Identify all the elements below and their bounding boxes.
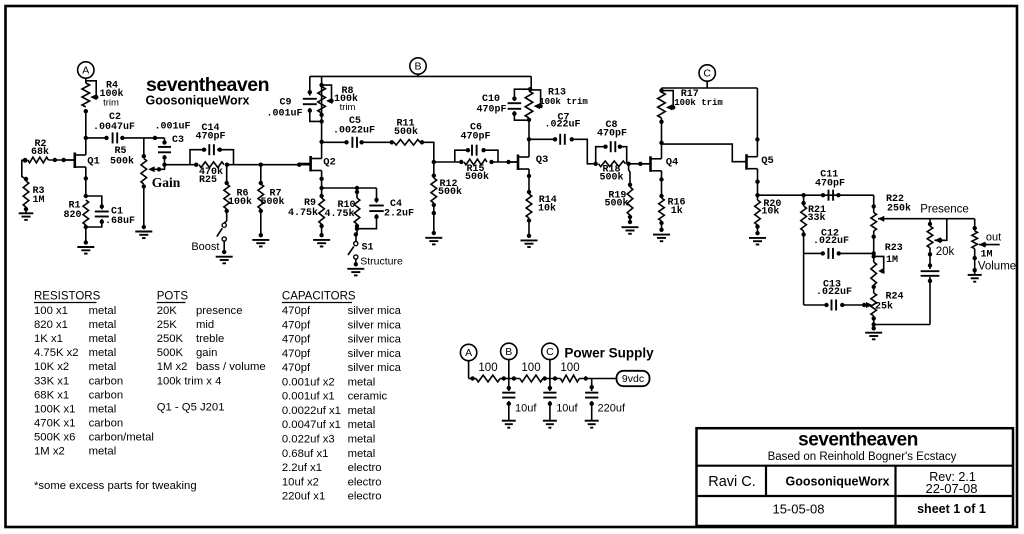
- ground R20: [749, 238, 766, 245]
- svg-text:.68uF: .68uF: [105, 216, 135, 227]
- node C rail: [662, 65, 758, 157]
- svg-text:10uf x2: 10uf x2: [282, 476, 319, 488]
- label C12: [813, 229, 849, 248]
- svg-text:RESISTORS: RESISTORS: [34, 291, 101, 303]
- transistor Q1: [64, 153, 86, 169]
- svg-text:metal: metal: [89, 403, 117, 415]
- svg-text:220uf: 220uf: [598, 403, 626, 415]
- title subtitle: [768, 451, 957, 463]
- ground R3: [19, 209, 34, 220]
- svg-text:C: C: [703, 68, 711, 80]
- label R2: [31, 139, 49, 158]
- capacitor parts list: [282, 305, 402, 503]
- svg-text:gain: gain: [196, 347, 217, 359]
- title date: [772, 502, 824, 517]
- svg-text:9vdc: 9vdc: [622, 373, 644, 385]
- wire Q4 drain: [659, 118, 663, 159]
- svg-text:.001uF: .001uF: [266, 109, 302, 120]
- svg-text:500k: 500k: [260, 196, 284, 208]
- label C5: [333, 116, 375, 137]
- svg-text:0.0047uf x1: 0.0047uf x1: [282, 419, 341, 431]
- label C14: [195, 123, 225, 143]
- label R20: [761, 199, 781, 218]
- logo seventheaven: [146, 74, 269, 96]
- resistor R25: [194, 162, 229, 168]
- svg-text:470pf: 470pf: [282, 319, 311, 331]
- wire tone stack ground: [872, 282, 931, 327]
- svg-text:15-05-08: 15-05-08: [772, 502, 824, 517]
- svg-text:500k: 500k: [394, 126, 418, 138]
- svg-text:sheet 1 of 1: sheet 1 of 1: [917, 502, 986, 516]
- svg-text:treble: treble: [196, 333, 224, 345]
- svg-text:metal: metal: [348, 376, 376, 388]
- label 100 b: [521, 362, 540, 374]
- svg-text:20K: 20K: [157, 305, 178, 317]
- svg-text:0.0022uf x1: 0.0022uf x1: [282, 405, 341, 417]
- wire Q5 out line: [758, 193, 874, 197]
- trimmer R17: [658, 88, 676, 118]
- wire R15 to Q3: [492, 160, 518, 164]
- wire to gain pot: [142, 136, 158, 159]
- svg-text:10uf: 10uf: [515, 403, 537, 415]
- ground R9: [313, 240, 330, 247]
- svg-text:Presence: Presence: [920, 204, 969, 216]
- label R22: [886, 194, 911, 215]
- switch boost: [217, 221, 227, 254]
- svg-text:silver mica: silver mica: [348, 348, 402, 360]
- svg-text:electro: electro: [348, 462, 382, 474]
- wire Q1 drain: [84, 109, 88, 155]
- svg-text:B: B: [414, 61, 421, 73]
- label Power Supply: [564, 345, 654, 360]
- svg-text:electro: electro: [348, 491, 382, 503]
- svg-text:C3: C3: [172, 135, 184, 146]
- label R6: [228, 189, 252, 209]
- svg-text:.022uF: .022uF: [816, 287, 852, 298]
- label 100 c: [560, 362, 579, 374]
- transistor Q3: [509, 155, 530, 171]
- ps capacitor 10uf b: [502, 379, 515, 421]
- label R24: [875, 292, 904, 313]
- svg-text:1K x1: 1K x1: [34, 333, 63, 345]
- svg-text:250k: 250k: [887, 203, 911, 215]
- svg-text:metal: metal: [348, 419, 376, 431]
- wire input to R3: [22, 160, 28, 181]
- label R8: [334, 86, 358, 113]
- capacitor presence: [921, 256, 940, 283]
- label 1M volume: [978, 250, 1016, 273]
- svg-text:silver mica: silver mica: [348, 362, 402, 374]
- svg-text:.0022uF: .0022uF: [333, 126, 375, 137]
- label R13: [539, 88, 588, 108]
- ground boost: [216, 257, 233, 264]
- label R17: [674, 89, 723, 108]
- label Presence: [920, 204, 969, 216]
- svg-text:ceramic: ceramic: [348, 391, 388, 403]
- label 10uf b: [515, 403, 537, 415]
- svg-text:Boost: Boost: [191, 241, 219, 253]
- resistor R12: [431, 178, 437, 215]
- svg-text:metal: metal: [89, 319, 117, 331]
- potentiometer R24 mid: [866, 293, 877, 329]
- ground R14: [521, 240, 538, 247]
- wire R18 to Q4: [629, 162, 651, 166]
- svg-text:68k: 68k: [31, 146, 49, 158]
- svg-text:1k: 1k: [671, 205, 683, 217]
- svg-text:470pF: 470pF: [597, 129, 627, 140]
- wire C11 to R22: [872, 195, 876, 208]
- label R18: [599, 165, 623, 184]
- logo GoosoniqueWorx: [146, 94, 250, 108]
- potentiometer R22 treble: [871, 208, 975, 240]
- node A circle: [78, 62, 94, 83]
- node R12: [432, 160, 436, 178]
- switch S1 structure: [348, 232, 358, 266]
- svg-text:trim: trim: [340, 102, 356, 113]
- label C8: [597, 120, 627, 140]
- svg-text:silver mica: silver mica: [348, 334, 402, 346]
- svg-text:470pF: 470pF: [195, 132, 225, 143]
- title company: [786, 475, 890, 489]
- resistor parts list: [34, 305, 154, 458]
- wire R11 to node: [422, 142, 434, 162]
- svg-text:Volume: Volume: [978, 260, 1016, 272]
- svg-text:1M x2: 1M x2: [34, 446, 65, 458]
- svg-text:470pf: 470pf: [282, 334, 311, 346]
- potentiometer volume 1M: [972, 219, 1000, 275]
- svg-text:4.75k: 4.75k: [288, 207, 318, 219]
- svg-text:470pF: 470pF: [815, 178, 845, 189]
- svg-text:250K: 250K: [157, 333, 184, 345]
- svg-text:500k: 500k: [599, 172, 623, 184]
- label R7: [260, 189, 284, 209]
- label R10: [324, 200, 355, 220]
- capacitor C9: [303, 90, 324, 124]
- capacitor C11: [821, 190, 841, 201]
- svg-text:.022uF: .022uF: [544, 120, 580, 131]
- svg-text:electro: electro: [348, 476, 382, 488]
- svg-text:metal: metal: [89, 305, 117, 317]
- svg-text:Power Supply: Power Supply: [564, 345, 654, 360]
- svg-text:.001uF: .001uF: [154, 121, 190, 132]
- svg-text:A: A: [465, 347, 472, 359]
- title rev: [925, 470, 977, 496]
- svg-text:220uf x1: 220uf x1: [282, 491, 325, 503]
- label Q2: [323, 157, 336, 169]
- resistor R9: [319, 198, 325, 237]
- wire B rail drop right: [528, 87, 532, 91]
- capacitor C3: [158, 138, 171, 165]
- trimmer R8: [318, 85, 334, 113]
- svg-text:0.68uf x1: 0.68uf x1: [282, 448, 328, 460]
- svg-text:A: A: [82, 65, 89, 77]
- svg-text:22-07-08: 22-07-08: [925, 481, 977, 496]
- resistor R7: [258, 165, 264, 238]
- label R25: [199, 166, 223, 186]
- svg-text:C: C: [546, 346, 554, 358]
- pots parts list: [157, 305, 266, 387]
- resistor R15: [459, 159, 494, 165]
- svg-text:10uf: 10uf: [556, 403, 578, 415]
- node B rail: [310, 58, 531, 96]
- resistor R11: [390, 140, 425, 146]
- transistor Q5: [744, 154, 758, 170]
- svg-text:4.75k: 4.75k: [324, 208, 354, 220]
- svg-text:500k: 500k: [465, 171, 489, 183]
- svg-text:C9: C9: [279, 98, 291, 109]
- svg-text:820 x1: 820 x1: [34, 319, 68, 331]
- svg-text:10k: 10k: [538, 203, 556, 215]
- resistor R2: [28, 157, 75, 163]
- resistor R20: [755, 200, 761, 235]
- label C1: [105, 207, 135, 228]
- capacitor C12: [804, 248, 874, 259]
- ground R1: [77, 227, 94, 254]
- svg-text:R5: R5: [114, 146, 126, 157]
- ps resistor 100 b: [520, 375, 561, 382]
- svg-text:Q3: Q3: [536, 154, 549, 166]
- svg-text:.0047uF: .0047uF: [93, 122, 135, 133]
- svg-text:470pF: 470pF: [476, 105, 506, 116]
- svg-text:carbon: carbon: [89, 389, 124, 401]
- svg-text:820: 820: [63, 210, 81, 221]
- label R21: [807, 205, 826, 224]
- svg-text:10K x2: 10K x2: [34, 361, 69, 373]
- label 220uf: [598, 403, 626, 415]
- capacitor C6 bypass: [455, 145, 498, 162]
- label C9: [266, 98, 302, 120]
- trimmer R4: [82, 81, 98, 107]
- svg-text:68K x1: 68K x1: [34, 389, 69, 401]
- svg-text:1M: 1M: [32, 195, 44, 206]
- wire Q1 drain to C2: [86, 136, 109, 140]
- label R23: [885, 243, 903, 266]
- svg-text:100: 100: [478, 362, 497, 374]
- svg-text:POTS: POTS: [157, 291, 189, 303]
- svg-text:silver mica: silver mica: [348, 305, 402, 317]
- label Q3: [536, 154, 549, 166]
- svg-text:25k: 25k: [875, 301, 893, 313]
- svg-text:100k trim x 4: 100k trim x 4: [157, 375, 222, 387]
- capacitor C2: [113, 132, 165, 143]
- wire Q2 source: [319, 171, 323, 199]
- label C4: [384, 199, 414, 220]
- svg-text:100: 100: [521, 362, 540, 374]
- label R12: [438, 179, 462, 198]
- wire Q5 drain dot: [755, 137, 759, 141]
- wire Q4 source: [659, 171, 663, 198]
- resistor R10: [354, 188, 360, 235]
- svg-text:Q1: Q1: [87, 156, 100, 168]
- svg-text:GoosoniqueWorx: GoosoniqueWorx: [786, 475, 890, 489]
- wire R22 to R23: [872, 240, 876, 259]
- ps capacitor 10uf c: [543, 379, 556, 421]
- ground S1: [347, 269, 364, 276]
- wire Q4 to Q5 gate: [662, 144, 747, 162]
- ps resistor 100 a: [476, 375, 520, 382]
- svg-text:100k trim: 100k trim: [539, 97, 588, 107]
- wire Q2 drain: [319, 76, 323, 158]
- label R1: [63, 201, 81, 222]
- transistor Q2: [299, 156, 321, 172]
- svg-text:seventheaven: seventheaven: [798, 430, 918, 451]
- potentiometer R23 bass: [871, 256, 885, 293]
- label R16: [667, 198, 685, 218]
- svg-text:metal: metal: [348, 448, 376, 460]
- trimmer R13: [525, 90, 543, 118]
- capacitor C5: [322, 137, 392, 148]
- svg-text:20k: 20k: [936, 246, 955, 258]
- wire node to R15: [434, 161, 462, 163]
- label R15: [465, 164, 489, 183]
- ps resistor 100 c: [561, 375, 617, 382]
- label S1: [361, 243, 373, 254]
- ground R16: [653, 235, 670, 242]
- title sheet: [917, 502, 986, 516]
- svg-text:S1: S1: [361, 243, 373, 254]
- ground R12: [425, 213, 442, 244]
- svg-text:*some excess parts for tweakin: *some excess parts for tweaking: [34, 480, 197, 492]
- svg-text:500K x6: 500K x6: [34, 431, 75, 443]
- label R9: [288, 198, 318, 219]
- svg-text:0.022uf x3: 0.022uf x3: [282, 434, 335, 446]
- svg-text:2.2uF: 2.2uF: [384, 209, 414, 220]
- svg-text:metal: metal: [89, 361, 117, 373]
- transistor Q4: [640, 156, 661, 172]
- wire gain to R25: [165, 164, 197, 166]
- svg-text:metal: metal: [348, 434, 376, 446]
- svg-text:0.001uf x2: 0.001uf x2: [282, 376, 335, 388]
- input terminal: [23, 158, 28, 163]
- svg-text:carbon: carbon: [89, 417, 124, 429]
- title seventheaven: [798, 430, 918, 451]
- svg-text:carbon: carbon: [89, 375, 124, 387]
- svg-text:C10: C10: [482, 94, 500, 105]
- label Gain: [152, 175, 181, 190]
- capacitor C10: [508, 89, 532, 122]
- label 10uf c: [556, 403, 578, 415]
- title block frame: [697, 428, 1014, 526]
- svg-text:GoosoniqueWorx: GoosoniqueWorx: [146, 94, 250, 108]
- svg-text:Q4: Q4: [666, 157, 679, 169]
- capacitor C8 bypass: [596, 141, 627, 164]
- svg-text:100K x1: 100K x1: [34, 403, 75, 415]
- svg-text:33k: 33k: [807, 212, 825, 224]
- capacitor C13: [804, 300, 867, 311]
- note transistors: [157, 402, 225, 414]
- ps rail: [469, 376, 476, 380]
- label R5: [110, 146, 134, 168]
- potentiometer R5 gain: [141, 159, 167, 189]
- svg-text:Based on Reinhold Bogner's Ecs: Based on Reinhold Bogner's Ecstacy: [768, 451, 957, 463]
- label R19: [604, 191, 628, 210]
- ps capacitor 220uf: [585, 379, 598, 421]
- svg-text:metal: metal: [89, 333, 117, 345]
- label C7: [544, 113, 580, 131]
- svg-text:500k: 500k: [438, 186, 462, 198]
- svg-text:Structure: Structure: [360, 255, 403, 267]
- svg-text:10k: 10k: [761, 206, 779, 218]
- label C11: [815, 170, 845, 190]
- svg-text:500k: 500k: [604, 198, 628, 210]
- svg-text:R23: R23: [885, 243, 903, 254]
- svg-text:trim: trim: [103, 97, 119, 108]
- wire R25 to Q2 gate: [227, 163, 311, 167]
- svg-text:470pf: 470pf: [282, 348, 311, 360]
- label out: [986, 232, 1001, 244]
- label 20k: [936, 246, 955, 258]
- svg-text:metal: metal: [348, 405, 376, 417]
- heading CAPACITORS: [282, 291, 356, 303]
- label Q5: [761, 155, 774, 167]
- label Boost: [191, 241, 219, 253]
- ground volume: [968, 275, 982, 282]
- svg-text:470pF: 470pF: [460, 132, 490, 143]
- resistor R6: [224, 165, 230, 221]
- wire Q5 source: [755, 169, 759, 200]
- label Q1: [87, 156, 100, 168]
- ground ps 220: [585, 421, 599, 428]
- capacitor C1: [86, 196, 109, 227]
- svg-text:500k: 500k: [110, 156, 134, 168]
- svg-text:Q2: Q2: [323, 157, 336, 169]
- ground R7: [252, 240, 269, 247]
- svg-text:B: B: [505, 346, 512, 358]
- svg-text:25K: 25K: [157, 319, 178, 331]
- heading POTS: [157, 291, 189, 303]
- svg-text:100 x1: 100 x1: [34, 305, 68, 317]
- wire Q1 source: [84, 167, 88, 198]
- ground tone stack: [865, 326, 882, 339]
- svg-text:bass / volume: bass / volume: [196, 361, 266, 373]
- ground ps b: [502, 421, 516, 428]
- svg-text:metal: metal: [89, 347, 117, 359]
- label C10: [476, 94, 506, 116]
- ground R19: [622, 227, 639, 234]
- node B ps: [501, 343, 517, 378]
- svg-text:metal: metal: [89, 446, 117, 458]
- wire Q3 drain: [527, 120, 531, 157]
- node C ps: [542, 343, 558, 378]
- svg-text:.022uF: .022uF: [813, 236, 849, 247]
- label C2: [93, 112, 135, 133]
- resistor R16: [659, 198, 665, 232]
- label Q4: [666, 157, 679, 169]
- label C6: [460, 123, 490, 143]
- svg-text:500K: 500K: [157, 347, 184, 359]
- svg-text:carbon/metal: carbon/metal: [89, 431, 154, 443]
- svg-text:Q1 - Q5 J201: Q1 - Q5 J201: [157, 402, 225, 414]
- svg-text:Gain: Gain: [152, 175, 181, 190]
- svg-text:silver mica: silver mica: [348, 319, 402, 331]
- node A ps: [460, 344, 476, 378]
- label R14: [538, 195, 557, 215]
- capacitor C14 bypass: [190, 144, 234, 165]
- label R3: [32, 186, 44, 206]
- svg-text:1M: 1M: [886, 255, 898, 266]
- terminal 9vdc: [617, 371, 650, 386]
- svg-text:1M: 1M: [980, 250, 992, 261]
- title author: [708, 474, 756, 490]
- wire source branch: [322, 186, 377, 194]
- resistor R21: [801, 195, 807, 305]
- svg-text:100k: 100k: [228, 196, 252, 208]
- ground gain pot: [135, 186, 152, 238]
- label 100 a: [478, 362, 497, 374]
- resistor R14: [526, 194, 532, 238]
- capacitor C7: [529, 134, 597, 164]
- svg-text:2.2uf x1: 2.2uf x1: [282, 462, 322, 474]
